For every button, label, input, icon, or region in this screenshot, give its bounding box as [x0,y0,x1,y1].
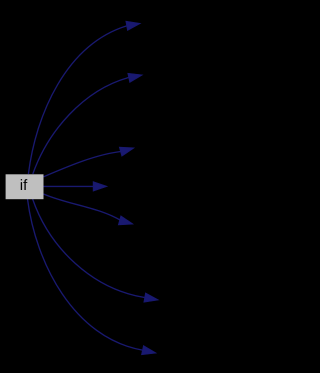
wire edge if->n6 [33,199,145,298]
wire edge if->n5 [44,194,122,221]
arrowhead 4 [93,182,107,192]
wire edge if->n4 [44,185,95,187]
wire edge if->n3 [44,151,122,176]
arrowhead 1 [126,21,141,30]
wire edge if->n1 [28,26,126,174]
arrowhead 3 [119,147,134,156]
node if label text [21,179,28,190]
arrowhead 2 [128,73,143,82]
wire edge if->n7 [28,199,143,350]
node if box [6,174,44,199]
wire edge if->n2 [33,77,129,174]
arrowhead 6 [144,293,159,302]
arrowhead 7 [141,345,156,354]
arrowhead 5 [118,216,133,225]
